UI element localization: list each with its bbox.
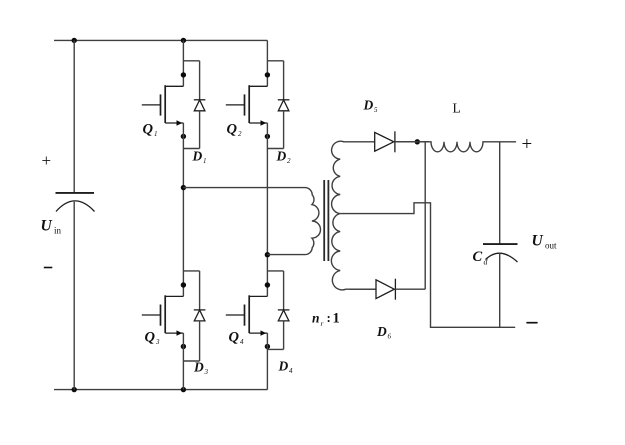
transformer T1 primary winding <box>183 188 320 255</box>
wire node X to D6 vertical link <box>424 142 426 289</box>
svg-text:U: U <box>532 233 544 250</box>
wire Q3 drain vertical <box>182 188 184 297</box>
svg-text::: : <box>327 310 331 325</box>
wire Q3 source vertical <box>182 333 184 390</box>
svg-text:3: 3 <box>204 368 209 376</box>
wire input left vertical lower <box>73 202 75 390</box>
svg-text:4: 4 <box>240 338 244 346</box>
wire output capacitor branch lower <box>499 253 501 327</box>
node bottom rail / Q3 source branch <box>181 387 186 392</box>
node B bridge midpoint right <box>265 252 270 257</box>
wire Q1 drain vertical <box>182 40 184 86</box>
inductor L <box>395 142 516 152</box>
svg-text:D: D <box>278 359 289 374</box>
svg-text:1: 1 <box>333 311 340 327</box>
svg-text:+: + <box>42 151 52 170</box>
capacitor Cd curved plate <box>486 253 518 262</box>
diode D5 <box>375 132 394 151</box>
svg-text:Q: Q <box>227 122 238 138</box>
svg-text:3: 3 <box>155 338 160 346</box>
node Q1 source terminal <box>181 134 186 139</box>
capacitor input Cin curved plate <box>56 201 95 212</box>
node Q2 source terminal <box>265 134 270 139</box>
svg-text:D: D <box>376 324 387 339</box>
svg-text:C: C <box>473 249 483 265</box>
wire output capacitor branch upper <box>499 142 501 244</box>
svg-text:out: out <box>545 241 557 251</box>
diode D6 <box>350 288 376 290</box>
wire Q2 source vertical <box>266 123 268 255</box>
node Q4 drain terminal <box>265 282 270 287</box>
wire D6 cathode horizontal <box>395 288 425 290</box>
diode D2 body diode <box>267 60 283 62</box>
wire Q4 source vertical <box>266 333 268 390</box>
node top-left junction <box>72 38 77 43</box>
svg-text:1: 1 <box>154 130 158 138</box>
svg-text:D: D <box>363 98 374 113</box>
transformer T1 core <box>323 180 325 261</box>
svg-text:Q: Q <box>145 330 156 346</box>
svg-text:n: n <box>312 311 320 326</box>
wire bottom input rail <box>54 389 267 391</box>
wire Q2 drain vertical <box>266 40 268 86</box>
wire Q1 source vertical <box>182 123 184 188</box>
svg-text:6: 6 <box>388 333 392 341</box>
svg-text:in: in <box>54 226 62 236</box>
node Q4 source terminal <box>265 344 270 349</box>
svg-text:+: + <box>522 134 533 155</box>
node Q1 drain terminal <box>181 72 186 77</box>
svg-text:U: U <box>41 218 53 235</box>
svg-text:4: 4 <box>289 367 293 375</box>
transistor Q4 <box>249 295 267 297</box>
node Q3 source terminal <box>181 344 186 349</box>
node Q3 drain terminal <box>181 282 186 287</box>
label - output polarity <box>526 322 537 324</box>
diode D3 body diode <box>183 270 199 272</box>
diode D4 body diode <box>267 270 283 272</box>
svg-text:2: 2 <box>287 157 291 165</box>
transistor Q3 <box>165 295 183 297</box>
wire D5 cathode to node X <box>395 141 429 143</box>
svg-text:D: D <box>193 360 204 375</box>
wire Q4 drain vertical <box>266 255 268 297</box>
svg-text:Q: Q <box>143 122 154 138</box>
svg-text:L: L <box>453 101 461 116</box>
wire input left vertical upper <box>73 40 75 193</box>
capacitor input Cin top plate <box>56 192 95 194</box>
node X rectifier output junction <box>415 139 420 144</box>
node A bridge midpoint left <box>181 185 186 190</box>
transformer T1 secondary winding <box>331 141 376 290</box>
node Q2 drain terminal <box>265 72 270 77</box>
transistor Q1 <box>165 85 183 87</box>
diode D1 body diode <box>183 60 199 62</box>
node top rail / Q1 drain branch <box>181 38 186 43</box>
wire top input rail <box>54 39 267 41</box>
wire center tap to output negative rail <box>340 203 515 327</box>
svg-text:2: 2 <box>238 130 242 138</box>
svg-text:Q: Q <box>229 330 240 346</box>
svg-text:1: 1 <box>203 157 207 165</box>
svg-text:r: r <box>321 319 324 328</box>
svg-text:D: D <box>192 149 203 164</box>
svg-text:D: D <box>276 149 287 164</box>
transistor Q2 <box>249 85 267 87</box>
capacitor Cd top plate <box>483 243 518 245</box>
svg-text:5: 5 <box>374 106 378 114</box>
label - input polarity <box>44 267 53 269</box>
node bottom-left junction <box>72 387 77 392</box>
